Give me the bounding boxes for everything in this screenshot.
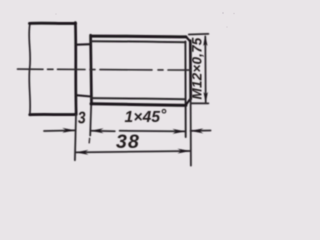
break line (wavy left edge of shaft) <box>29 23 30 114</box>
undercut groove top <box>76 43 91 46</box>
centerline dash 1 <box>18 68 44 70</box>
chamfer start line <box>184 41 186 137</box>
chamfer top edge <box>186 37 190 42</box>
centerline dot 2 <box>90 69 95 71</box>
dim 3 arrow right (points left) <box>91 128 104 133</box>
dim 3 line right <box>91 130 115 132</box>
thread crest top <box>91 35 186 39</box>
svg-text:3: 3 <box>77 109 86 127</box>
centerline dash 3 <box>100 69 152 71</box>
thread root top <box>91 41 185 42</box>
extension line left (dims 3 and 38) <box>75 115 76 161</box>
chamfer dim right line <box>191 130 211 132</box>
end face <box>189 41 192 99</box>
M12 extension line top <box>189 33 209 36</box>
chamfer dim shelf line <box>120 130 186 133</box>
extension line right (dims 38 and chamfer) <box>190 99 192 166</box>
extension line (dim 3 right) <box>90 104 91 135</box>
dim 38 arrow right (points right) <box>178 149 191 154</box>
undercut groove bottom <box>76 95 91 96</box>
centerline dot 3 <box>158 69 163 71</box>
thread start face <box>89 35 93 104</box>
shoulder face <box>74 23 77 115</box>
shaft top edge <box>30 22 76 25</box>
shaft bottom edge <box>30 113 76 116</box>
M12 arrow down <box>204 92 208 103</box>
svg-text:M12×0,75: M12×0,75 <box>190 37 205 99</box>
dim 3 arrow left (points right) <box>62 128 75 133</box>
dim 38 line <box>76 151 191 152</box>
dim 3 line left <box>44 129 75 132</box>
dim 38 arrow left (points left) <box>75 150 88 155</box>
M12 extension line bottom <box>191 102 209 104</box>
faint paper specks <box>55 12 235 28</box>
M12 arrow up <box>203 35 207 46</box>
svg-text:1×45°: 1×45° <box>125 107 168 127</box>
svg-text:38: 38 <box>116 131 140 153</box>
centerline dash 2 <box>58 68 86 70</box>
thread root bottom <box>91 98 185 99</box>
paper background <box>0 0 250 176</box>
chamfer bottom edge <box>186 99 190 105</box>
extension tick below dim 3 <box>88 138 90 142</box>
chamfer dim arrow (points right) <box>173 129 186 134</box>
centerline dot 1 <box>48 68 54 70</box>
M12 dimension line <box>204 37 206 103</box>
thread crest bottom <box>91 104 186 106</box>
chamfer dim arrow (points left) <box>190 128 203 133</box>
centerline dash 4 <box>168 69 191 71</box>
